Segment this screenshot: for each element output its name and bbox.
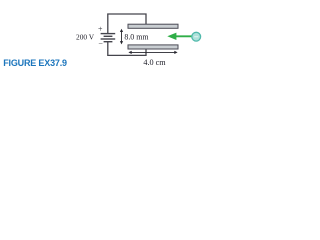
svg-text:8.0 mm: 8.0 mm [124,32,149,41]
velocity arrow (green, pointing left) [167,33,192,40]
svg-text:4.0 cm: 4.0 cm [143,58,166,67]
svg-text:FIGURE EX37.9: FIGURE EX37.9 [3,58,67,68]
capacitor top plate [128,24,178,28]
wire bottom: battery negative terminal to bottom plate [108,42,146,56]
svg-text:−: − [98,40,103,49]
svg-text:+: + [98,25,103,34]
battery V1 long plate (top) [101,33,116,35]
battery V1 short plate [104,35,113,37]
electron (charged particle) [192,32,201,41]
capacitor bottom plate [128,45,178,49]
wire top: battery positive terminal to top plate [108,14,146,34]
battery V1 long plate [101,38,116,40]
svg-text:200 V: 200 V [76,33,95,42]
battery V1 short plate (bottom) [104,41,113,43]
dimension line 8.0 mm (vertical, between plates) [120,29,123,45]
dimension line 4.0 cm (horizontal, below bottom plate) [128,51,177,54]
